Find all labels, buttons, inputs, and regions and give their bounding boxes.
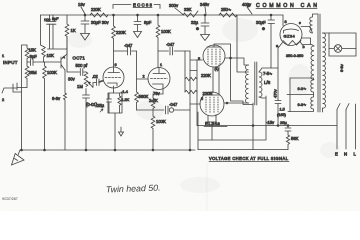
wire: lower loop line bbox=[198, 149, 288, 151]
wire: rail left end drop to base node bbox=[41, 15, 44, 47]
bias network 25uF and 56K bbox=[285, 126, 291, 136]
resistor 560K (grid divider) bbox=[135, 51, 139, 110]
wire: B+/bias vertical 470 bbox=[275, 48, 281, 126]
transformer T1 output: primary coil bbox=[246, 65, 249, 103]
wire: V1a grid entry bbox=[99, 80, 104, 82]
label ECC83 with bracket bbox=[113, 5, 160, 9]
wire: V1b cathode chain bbox=[153, 87, 163, 98]
triode V1b ECC83 bbox=[148, 68, 170, 90]
wire: base node bbox=[44, 61, 62, 63]
wire: GZ34 heater pin to 5v winding bbox=[301, 26, 310, 28]
wire: emitter down to ground bus with small zigzag bbox=[64, 70, 67, 150]
transformer T2 HT secondary coil with taps bbox=[311, 46, 314, 80]
enclosure box around output stage bbox=[198, 96, 266, 150]
wire: cathode tap to .047 cap bbox=[137, 109, 165, 111]
wire: V1b grid bbox=[137, 78, 149, 80]
pentode EL34 upper bbox=[203, 45, 225, 67]
resistor 1K (OC71 collector load) bbox=[65, 15, 69, 72]
wire: upper EL34 anode to OT (crossover) bbox=[214, 44, 253, 105]
resistor 56K (bias bleeder) bbox=[286, 135, 289, 150]
transformer T2 heater winding 6.3v lower bbox=[288, 95, 314, 112]
V1b anode bar bbox=[153, 68, 166, 74]
capacitor 100uF/8uF pair on rail bbox=[47, 15, 68, 49]
wire: secondary bottom to enclosure bbox=[259, 97, 266, 98]
ground (32uF) bbox=[201, 35, 210, 41]
ground (8uF) bbox=[134, 32, 142, 38]
V1b grid dashes bbox=[151, 78, 168, 80]
V1a anode bar bbox=[108, 67, 120, 73]
transformer T1 core bbox=[255, 62, 257, 105]
wire: mains E N L drops bbox=[337, 104, 356, 149]
capacitor 32uF with ground bbox=[201, 15, 209, 34]
resistor 100K (V1b anode load) bbox=[156, 15, 160, 68]
resistor 100K (cathode tail) bbox=[151, 116, 155, 150]
transformer T1 secondary coil bbox=[259, 72, 262, 97]
V1b cathode bbox=[153, 84, 164, 87]
resistor 33K on rail bbox=[183, 11, 198, 17]
transistor OC71 bbox=[61, 54, 67, 70]
capacitor 0.47 (V1b anode to upper EL34) bbox=[158, 47, 190, 55]
resistor 220K on rail bbox=[90, 13, 108, 17]
wire: primary top to pilot light box bbox=[323, 33, 330, 112]
resistor 220K (V1a anode load) bbox=[112, 15, 116, 67]
wire: GZ34 left anode down bbox=[278, 43, 283, 49]
wire: lower EL34 grid bbox=[190, 103, 200, 105]
wire: collector up to 1K bbox=[66, 37, 68, 55]
capacitor 8uF with ground bbox=[134, 15, 141, 31]
junction dots on rail bbox=[84, 14, 86, 16]
capacitor 0.47 (V1a anode to V1b grid chain) bbox=[114, 47, 137, 55]
potentiometer 1M volume bbox=[84, 72, 88, 95]
ground (30uF) bbox=[81, 34, 90, 41]
triode V1a ECC83 bbox=[103, 67, 124, 88]
wire: lower EL34 cathode stubs bbox=[208, 115, 216, 141]
ground bus bbox=[20, 149, 195, 151]
resistor 250 ohm on rail bbox=[219, 13, 237, 17]
rectifier GZ34 bbox=[280, 24, 302, 46]
transformer T2 primary coil bbox=[323, 33, 326, 108]
wire: bias line -15v to earth bbox=[197, 125, 337, 127]
capacitor 30uF 30v with ground bbox=[81, 15, 89, 33]
resistor 2.2K (V1b cathode) bbox=[151, 98, 155, 116]
wire: secondary top to B+ vertical bbox=[259, 68, 278, 72]
pot wiper arrow bbox=[88, 82, 96, 88]
resistor 220K (lower grid leak) bbox=[185, 90, 197, 93]
transformer T2 heater winding 6.3v upper bbox=[287, 78, 314, 95]
transformer T2 mains: 5v rectifier winding bbox=[310, 14, 318, 33]
junction dots on bus bbox=[21, 149, 23, 151]
pilot lamp box bbox=[329, 33, 356, 56]
capacitor 30uF common can bbox=[268, 15, 275, 68]
resistor 220K (upper grid leak) bbox=[185, 77, 197, 80]
wire: rail right end to GZ34 pin 8 bbox=[282, 15, 284, 26]
capacitor 500pf (collector coupling) bbox=[67, 69, 86, 76]
V1a cathode network box: 25uF and 2.2K bbox=[108, 86, 122, 150]
ground symbol (main bus) bbox=[18, 150, 20, 155]
wire: heater return vertical bbox=[289, 78, 291, 112]
wire: upper EL34 screen to OT top bbox=[225, 58, 249, 65]
resistor 15K (grid leak) bbox=[25, 45, 29, 62]
wire: lower EL34 anode to OT bottom bbox=[224, 102, 249, 104]
mains switch (double pole) bbox=[337, 104, 349, 110]
wire: GZ34 right anode to HT winding bbox=[300, 38, 314, 46]
pilot lamp bbox=[334, 45, 342, 53]
wire: OT bottom to lower loop bbox=[252, 103, 254, 150]
capacitor 8uF input coupling bbox=[27, 59, 44, 66]
wire: upper EL34 cathode/heater links bbox=[213, 65, 219, 95]
wire: grid bias feed vertical bbox=[185, 51, 197, 126]
resistor 100K (base to ground) bbox=[43, 62, 47, 150]
capacitor .047 (lower coupling) bbox=[166, 106, 169, 114]
small ground mark right of cathode box bbox=[119, 127, 124, 136]
faint fold line bbox=[206, 162, 209, 211]
wire: upper EL34 grid bbox=[190, 51, 203, 150]
V1a grid dashes bbox=[105, 77, 121, 79]
paper smudges bbox=[68, 18, 340, 193]
capacitor .02 (to V1a grid) bbox=[97, 79, 104, 86]
wire: OT centre tap from rail bbox=[237, 16, 249, 73]
wire: main B+ rail bbox=[41, 14, 284, 16]
pentode EL34 lower bbox=[200, 92, 224, 116]
wire: jack sleeve to ground bus bbox=[22, 45, 28, 150]
resistor 26M (series grid) bbox=[25, 62, 29, 88]
transformer T2 core bbox=[318, 14, 320, 112]
capacitor (0.01) pot bottom bbox=[83, 95, 90, 150]
V1a cathode bbox=[108, 83, 118, 86]
resistor 10K (base bias upper) bbox=[42, 47, 46, 63]
